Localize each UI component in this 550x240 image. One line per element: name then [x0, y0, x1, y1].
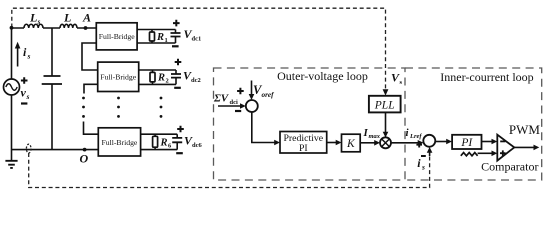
resistor R6 [154, 134, 156, 149]
arrow carrier to comparator [478, 152, 492, 154]
svg-text:PI: PI [299, 143, 308, 154]
current sensor ellipse [26, 144, 31, 153]
svg-text:PLL: PLL [374, 100, 395, 112]
row2 dc rails [139, 70, 176, 84]
wire top horizontal [12, 27, 97, 29]
capacitor C2 [175, 70, 177, 84]
svg-text:dc6: dc6 [192, 142, 203, 149]
svg-text:2: 2 [166, 78, 169, 85]
plus row3 [177, 126, 184, 133]
wire left vertical (source branch) [11, 28, 13, 161]
svg-text:ΣV: ΣV [213, 93, 230, 105]
svg-text:max: max [369, 133, 381, 140]
wire outer node to Predictive PI [252, 112, 275, 143]
resistor R1 [151, 30, 153, 44]
vs sense dashed wire [12, 8, 386, 90]
svg-text:A: A [82, 11, 91, 25]
inductor L [60, 24, 77, 28]
svg-text:L: L [29, 11, 37, 25]
svg-text:K: K [346, 138, 356, 150]
block K [342, 134, 361, 152]
node O [83, 148, 87, 152]
AC source vs [4, 79, 20, 95]
plus sign vs [21, 77, 28, 84]
arrow K to multiplier [360, 142, 374, 144]
svg-text:Comparator: Comparator [481, 160, 538, 174]
summing node outer (voltage) [246, 100, 258, 112]
ellipsis dots column 1 [82, 97, 85, 100]
block PLL [369, 96, 401, 113]
ground [5, 161, 17, 168]
svg-text:s: s [421, 163, 425, 172]
is feedback arrow up [429, 152, 431, 156]
minus row2 [174, 87, 181, 89]
summing node inner (current) [423, 135, 435, 147]
arrow PI to comparator [482, 141, 492, 143]
minus sign outer node [235, 110, 241, 112]
minus sign vs [21, 102, 27, 104]
Voref arrow [251, 81, 253, 96]
svg-text:Lref: Lref [409, 133, 422, 140]
ellipsis dots column 2 [117, 97, 120, 100]
capacitor C1 [175, 30, 177, 44]
inductor Ls [24, 24, 43, 28]
svg-text:Full-Bridge: Full-Bridge [101, 138, 137, 147]
plus comparator [500, 150, 506, 156]
full-bridge 6 [98, 128, 140, 156]
multiplier node [380, 137, 391, 148]
block PI [452, 135, 481, 149]
full-bridge 2 [98, 62, 139, 91]
plus sign inner node [416, 142, 422, 148]
svg-text:oref: oref [262, 91, 275, 99]
row3 dc rails [141, 134, 178, 149]
wire bottom horizontal [12, 149, 99, 151]
svg-text:Outer-voltage loop: Outer-voltage loop [277, 69, 368, 83]
svg-text:PI: PI [460, 137, 473, 149]
wire FB2 down link [84, 84, 98, 93]
minus comparator [500, 140, 505, 142]
row1 dc rails [137, 30, 175, 44]
arrow sum Vdci into summing node [218, 105, 240, 107]
svg-text:Inner-courrent loop: Inner-courrent loop [440, 70, 533, 84]
block Predictive PI [280, 132, 327, 154]
minus sign inner node [421, 155, 426, 157]
outer-voltage loop dashed box [214, 68, 406, 180]
node top-left junction [10, 26, 14, 30]
resistor R2 [152, 70, 154, 84]
plus row1 [173, 20, 180, 27]
vs sense arrowhead into PLL [383, 89, 389, 95]
arrow PI to K [327, 142, 336, 144]
svg-text:O: O [80, 152, 89, 166]
wire PLL to multiplier [385, 112, 387, 132]
current is arrow [17, 47, 19, 67]
wire FB1 to FB2 link [82, 43, 98, 70]
svg-text:Full-Bridge: Full-Bridge [100, 73, 136, 82]
output PWM arrow [514, 146, 534, 148]
minus row3 [176, 152, 183, 154]
wire multiplier to inner summing node [391, 142, 418, 144]
node A [84, 26, 88, 30]
minus row1 [172, 45, 179, 47]
ellipsis dots column 3 [160, 97, 163, 100]
wire link to FB3 [84, 122, 99, 135]
svg-text:R: R [160, 137, 168, 148]
plus row2 [175, 59, 182, 66]
svg-text:PWM: PWM [509, 122, 541, 137]
svg-text:Full-Bridge: Full-Bridge [99, 32, 135, 41]
carrier zigzag [461, 153, 478, 156]
is sense dashed wire [29, 153, 430, 188]
svg-text:L: L [63, 11, 71, 25]
capacitor branch (filter) [51, 28, 53, 150]
full-bridge 1 [96, 23, 137, 50]
svg-text:R: R [156, 32, 164, 43]
comparator U1 [497, 135, 514, 161]
capacitor C6 [176, 134, 178, 149]
svg-text:dci: dci [230, 99, 239, 106]
svg-text:s: s [37, 17, 41, 26]
svg-text:dc1: dc1 [192, 36, 202, 43]
svg-text:s: s [27, 52, 31, 61]
inner-courrent loop dashed box [405, 68, 542, 180]
svg-text:dc2: dc2 [191, 77, 201, 84]
plus sign outer node [237, 88, 244, 95]
svg-text:1: 1 [165, 37, 168, 44]
wire inner node to PI [435, 141, 446, 143]
svg-text:s: s [26, 92, 30, 101]
svg-text:R: R [157, 72, 165, 83]
